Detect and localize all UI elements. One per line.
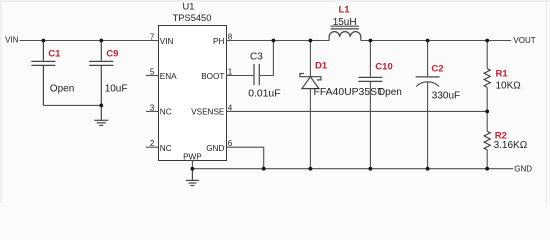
- wire rail down to C2: [427, 41, 429, 77]
- capacitor C1: [31, 41, 55, 106]
- svg-text:VIN: VIN: [160, 37, 174, 46]
- svg-text:Open: Open: [377, 87, 401, 98]
- wire D1 anode down to gnd rail: [309, 89, 311, 169]
- svg-text:L1: L1: [339, 5, 351, 16]
- node junction R2 bottom: [485, 167, 489, 171]
- wire rail down to R1: [486, 41, 488, 69]
- node junction R1 top: [485, 39, 489, 43]
- wire PH rail from pin 8 to inductor: [227, 40, 330, 42]
- svg-text:10uF: 10uF: [105, 83, 128, 94]
- node junction GND pin riser / rail: [262, 167, 266, 171]
- pin 3 NC: [146, 110, 159, 112]
- svg-text:C2: C2: [431, 63, 443, 74]
- node junction D1 top: [309, 39, 313, 43]
- svg-text:NC: NC: [160, 108, 172, 117]
- wire top rail VIN to IC pin 7: [20, 40, 159, 42]
- ground under C9: [94, 105, 108, 125]
- inductor L1: [329, 26, 361, 40]
- svg-text:D1: D1: [315, 60, 328, 71]
- capacitor C9: [89, 41, 113, 106]
- wire rail from inductor to VOUT: [361, 40, 511, 42]
- node junction C2 top: [426, 39, 430, 43]
- svg-text:GND: GND: [514, 164, 532, 173]
- svg-text:PH: PH: [213, 37, 224, 46]
- svg-text:3.16KΩ: 3.16KΩ: [494, 140, 528, 151]
- svg-text:10KΩ: 10KΩ: [496, 80, 522, 91]
- op-amp U1 TPS5450 IC body: [159, 26, 227, 161]
- svg-text:BOOT: BOOT: [201, 72, 224, 81]
- wire C1 bottom to C9 bottom: [43, 104, 101, 106]
- node junction C9 top: [99, 39, 103, 43]
- node junction C3 riser on PH rail: [272, 39, 276, 43]
- node junction C1 top: [42, 39, 46, 43]
- wire faint screenshot edge right: [546, 0, 548, 203]
- capacitor C2 polarized: [416, 77, 440, 87]
- capacitor C10: [358, 77, 382, 81]
- svg-text:Open: Open: [50, 83, 74, 94]
- node junction PWP / rail: [191, 167, 195, 171]
- wire C3 to PH rail: [260, 41, 274, 76]
- wire rail down to C10: [369, 41, 371, 77]
- node junction L1 out / C10 top: [369, 39, 373, 43]
- wire R2 bottom to gnd rail: [486, 150, 488, 169]
- wire faint screenshot edge left: [0, 0, 2, 203]
- node junction VSENSE divider: [485, 110, 489, 114]
- svg-text:U1: U1: [183, 2, 195, 12]
- svg-text:TPS5450: TPS5450: [173, 13, 212, 23]
- svg-text:2: 2: [150, 139, 155, 148]
- svg-text:R1: R1: [496, 69, 509, 80]
- resistor R2: [484, 131, 490, 150]
- ground under PWP: [186, 169, 199, 186]
- svg-text:C9: C9: [106, 49, 118, 60]
- node junction C10 bottom: [369, 167, 373, 171]
- pin 2 NC: [146, 146, 159, 148]
- svg-text:0.01uF: 0.01uF: [248, 88, 280, 99]
- svg-text:ENA: ENA: [160, 72, 177, 81]
- svg-text:15uH: 15uH: [333, 17, 357, 28]
- resistor R1: [484, 69, 490, 88]
- svg-text:5: 5: [150, 67, 155, 76]
- wire VSENSE from pin 4 to divider: [227, 110, 488, 112]
- wire bottom gnd rail: [192, 168, 513, 170]
- svg-text:C10: C10: [375, 62, 392, 73]
- svg-text:VSENSE: VSENSE: [191, 108, 225, 117]
- wire PH rail down to D1: [309, 41, 311, 77]
- node junction C2 bottom: [426, 167, 430, 171]
- capacitor C3: [254, 64, 259, 85]
- node junction C9 bottom: [99, 104, 103, 108]
- svg-text:C1: C1: [48, 49, 61, 60]
- node junction D1 bottom: [309, 167, 313, 171]
- pin 5 ENA: [146, 75, 159, 77]
- svg-text:FFA40UP35ST: FFA40UP35ST: [314, 87, 385, 98]
- wire GND pin 6 to bottom rail: [227, 147, 264, 169]
- svg-text:3: 3: [150, 103, 155, 112]
- svg-text:7: 7: [150, 32, 155, 41]
- diode D1 schottky: [300, 74, 321, 89]
- svg-text:C3: C3: [250, 51, 263, 62]
- svg-text:NC: NC: [160, 144, 172, 153]
- wire PWP stub: [191, 161, 193, 169]
- svg-text:GND: GND: [206, 144, 224, 153]
- svg-text:330uF: 330uF: [432, 90, 460, 101]
- wire BOOT pin to C3: [227, 75, 254, 77]
- svg-text:PWP: PWP: [183, 152, 202, 161]
- svg-text:VIN: VIN: [5, 36, 19, 45]
- wire R1 bottom to VSENSE node: [486, 87, 488, 131]
- svg-text:VOUT: VOUT: [513, 36, 535, 45]
- wire faint screenshot edge top: [0, 0, 550, 2]
